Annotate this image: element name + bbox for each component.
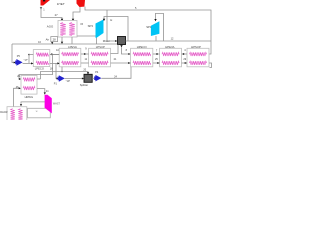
svg-text:HPEVA: HPEVA [165, 45, 174, 49]
svg-text:Splitter: Splitter [80, 83, 88, 87]
svg-text:LPSUP: LPSUP [96, 45, 105, 49]
svg-text:HPECO: HPECO [137, 45, 148, 49]
svg-text:SP1: SP1 [146, 25, 152, 29]
svg-text:HPSUP: HPSUP [191, 45, 201, 49]
svg-text:LPEVA: LPEVA [68, 45, 77, 49]
svg-text:HRWG: HRWG [25, 95, 33, 99]
svg-text:H: H [110, 18, 112, 22]
svg-text:28: 28 [53, 38, 57, 42]
svg-text:Mixer: Mixer [103, 39, 110, 43]
svg-text:"17": "17" [24, 59, 29, 62]
svg-text:WHST: WHST [53, 103, 61, 106]
svg-text:27: 27 [55, 13, 58, 17]
svg-text:1HET: 1HET [57, 2, 65, 6]
svg-text:AGG: AGG [47, 24, 54, 28]
svg-text:SP3: SP3 [88, 24, 94, 28]
svg-text:LPECO: LPECO [35, 67, 44, 71]
svg-text:DACR: DACR [0, 110, 7, 114]
svg-text:Air: Air [46, 38, 49, 42]
svg-text:"19": "19" [66, 80, 71, 83]
